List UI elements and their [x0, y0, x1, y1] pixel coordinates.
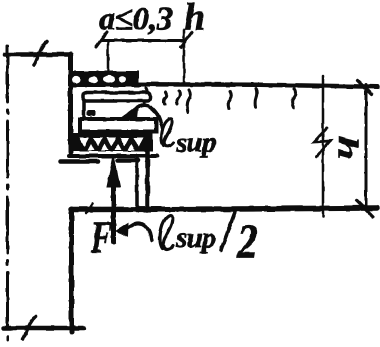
wall axis line (dash-dot): [6, 46, 9, 344]
curved leader arrow (upper, for l_sup): [130, 105, 162, 128]
step vertical: [135, 157, 139, 211]
break mark on wall top line: [34, 41, 47, 65]
label slash: [221, 212, 235, 250]
surface tick 3: [177, 91, 180, 104]
beam top line: [130, 84, 378, 87]
beam end face vertical: [145, 135, 150, 210]
ledge line right segment: [118, 158, 138, 163]
break nick on beam bottom line: [86, 204, 93, 214]
ledge line left segment: [61, 159, 98, 164]
break mark on wall bottom line: [23, 316, 36, 339]
svg-text:sup: sup: [175, 127, 216, 159]
force arrow F: [111, 186, 116, 242]
h dim top slash tick: [358, 81, 372, 95]
small leader arrow (lower, for l_sup/2): [127, 223, 152, 240]
bearing plate bar 1: [83, 93, 150, 102]
h dim bottom slash tick: [357, 201, 373, 217]
right slash tick: [181, 32, 192, 47]
surface tick 7: [292, 89, 295, 108]
bearing plate bar 2: [80, 119, 156, 132]
wall bottom line: [3, 326, 84, 331]
top bearing pad (mortar joint, hatched): [68, 71, 139, 87]
wall face upper: [68, 54, 73, 152]
surface tick 2: [164, 92, 167, 104]
top dimension line a<=0.3h: [101, 39, 186, 42]
surface tick 4: [187, 90, 190, 113]
h dimension line (outer): [365, 85, 368, 209]
svg-text:sup: sup: [175, 222, 216, 254]
pad bottom line: [69, 154, 157, 158]
break zigzag on h line: [314, 128, 330, 156]
svg-text:F: F: [90, 212, 112, 263]
wall face lower: [69, 209, 74, 332]
surface tick 1: [144, 88, 147, 105]
left slash tick: [96, 32, 107, 47]
label l (of l_sup/2): [160, 216, 173, 250]
label l (of l_sup): [162, 119, 173, 146]
left extension line: [107, 41, 110, 72]
surface tick 5: [228, 91, 231, 109]
svg-text:h: h: [332, 136, 364, 160]
wall top line: [5, 52, 71, 57]
left connector vertical: [82, 100, 86, 136]
svg-text:h: h: [184, 0, 205, 39]
small blob tick: [87, 110, 95, 116]
svg-text:2: 2: [236, 213, 258, 268]
surface tick 6: [255, 89, 257, 108]
svg-text:a≤0,3: a≤0,3: [99, 2, 172, 38]
beam bottom line: [71, 208, 377, 210]
h extension line (inner): [322, 76, 325, 217]
bottom bearing pad (mortar joint, hatched): [72, 133, 153, 152]
right extension line: [183, 30, 186, 84]
